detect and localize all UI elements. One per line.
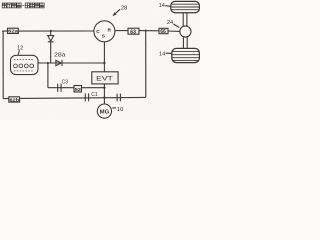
box 62b	[9, 97, 20, 103]
wire: planetary R to box 63	[115, 30, 128, 32]
node: junction to right rail	[145, 30, 147, 32]
label 14 (bottom)	[159, 52, 172, 58]
one-way clutch 28a (diode, right) on engine line	[56, 60, 62, 66]
wheel 14 (bottom)	[172, 48, 200, 62]
planetary gear unit 28	[94, 21, 115, 42]
wire: top row from left rail through 62a box to planetary C	[2, 30, 94, 32]
wire: row B from left rail to right rail	[3, 97, 146, 98]
label 24 with leader	[167, 20, 179, 28]
node: junction of diode branch on top row	[50, 30, 52, 32]
axle shaft lower	[183, 37, 187, 49]
box 62a	[8, 28, 19, 34]
wire: left rail	[2, 31, 4, 99]
title text 轉向故障-安全模式 (tiny CJK, drawn as glyph blocks)	[2, 3, 44, 8]
box 63	[128, 28, 139, 35]
EVT box	[92, 72, 118, 84]
clutch C2	[117, 94, 120, 102]
scan noise overlay	[0, 0, 200, 120]
box 66	[159, 28, 168, 35]
shaft: planetary S down to EVT	[103, 42, 105, 72]
axle shaft upper	[183, 13, 187, 27]
clutch C1	[85, 93, 88, 101]
wheel 14 (top)	[171, 1, 200, 12]
node: junction engine line / row A branch	[47, 62, 49, 64]
differential 24	[180, 26, 191, 37]
clutch C3	[58, 84, 61, 92]
one-way clutch (diode, down) on left branch	[48, 31, 54, 42]
wire: box 63 to box 66	[139, 30, 159, 32]
gear box on row A	[74, 86, 82, 93]
wire: right rail down from junction	[145, 31, 147, 98]
motor-generator MG	[97, 104, 111, 118]
engine 12	[11, 55, 39, 74]
wire: row A to EVT shaft	[48, 87, 105, 89]
wire: box 66 to differential 24	[168, 30, 180, 32]
node: junction row A	[103, 87, 105, 89]
shaft: EVT down to MG	[103, 84, 105, 104]
wire: branch from engine line down to row A	[47, 63, 49, 88]
label 28 with arrow	[113, 6, 128, 17]
node: junction row B	[103, 96, 105, 98]
label 14 (top)	[159, 3, 171, 9]
label 10	[112, 107, 123, 113]
node: junction engine line / planetary S shaft	[103, 62, 105, 64]
label 12 with leader	[17, 45, 23, 54]
wire: engine output line	[38, 62, 104, 64]
wire: diode branch down to engine output line	[50, 42, 52, 63]
